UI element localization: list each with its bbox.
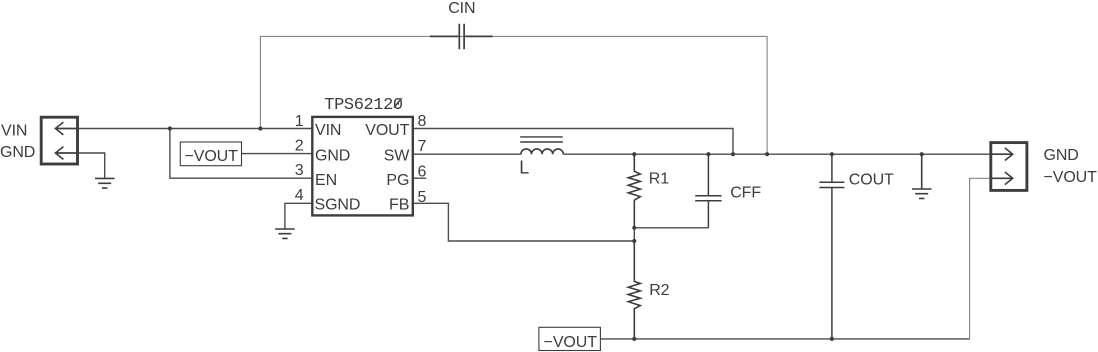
svg-text:EN: EN: [315, 172, 337, 189]
svg-text:PG: PG: [386, 172, 409, 189]
wire FB pin 5 to divider midpoint: [413, 203, 635, 241]
svg-text:R1: R1: [649, 170, 669, 187]
wire SGND pin 4 to ground: [285, 203, 312, 229]
svg-text:5: 5: [418, 189, 427, 206]
svg-text:L: L: [519, 157, 529, 177]
svg-text:GND: GND: [1044, 147, 1079, 164]
node junction VIN/EN: [168, 126, 172, 130]
svg-text:CFF: CFF: [730, 185, 761, 202]
svg-text:GND: GND: [315, 147, 350, 164]
capacitor CFF: [695, 154, 721, 228]
wire GND from connector to ground: [55, 153, 104, 178]
svg-text:SW: SW: [384, 147, 411, 164]
svg-text:FB: FB: [389, 197, 409, 214]
node junction R1/CFF bottom: [632, 226, 636, 230]
node junction FB/divider: [632, 239, 636, 243]
svg-text:VIN: VIN: [1, 122, 27, 139]
slashed zero of TPS62120: [394, 98, 402, 107]
node junction rail/ground: [920, 152, 924, 156]
ground symbol (input GND): [95, 178, 115, 188]
connector J1 VIN/GND input: [41, 117, 77, 164]
svg-text:GND: GND: [0, 144, 35, 161]
wire output rail (inductor to output connector): [563, 153, 1012, 155]
capacitor CIN: [430, 24, 493, 50]
wire pin 6 PG stub: [413, 177, 426, 179]
arrow pin GND (left connector, bottom): [55, 147, 77, 160]
node junction COUT/bottom rail: [830, 337, 834, 341]
svg-text:TPS62120: TPS62120: [324, 96, 403, 115]
svg-text:−VOUT: −VOUT: [1044, 169, 1098, 186]
arrow pin -VOUT (right connector, bottom): [991, 172, 1013, 185]
arrow pin GND (right connector, top): [991, 148, 1013, 161]
node junction rail/CIN: [765, 152, 769, 156]
svg-text:SGND: SGND: [315, 197, 361, 214]
wire VIN input rail (connector to pin 1): [55, 128, 312, 130]
svg-text:VIN: VIN: [315, 122, 341, 139]
net label -VOUT (bottom rail): [539, 327, 601, 351]
resistor R1: [628, 154, 640, 228]
inductor L: [520, 137, 563, 154]
wire SW pin 7 to inductor: [413, 153, 521, 155]
wire -VOUT label box to pin 2 GND: [242, 153, 313, 155]
node junction rail/COUT: [830, 152, 834, 156]
svg-text:−VOUT: −VOUT: [185, 148, 239, 165]
net label -VOUT (at GND pin): [180, 142, 241, 166]
svg-text:VOUT: VOUT: [365, 122, 409, 139]
node junction rail/VOUT: [731, 152, 735, 156]
svg-text:3: 3: [295, 162, 304, 179]
wire CFF bottom to divider: [634, 227, 708, 229]
svg-text:8: 8: [418, 113, 427, 130]
wire VOUT pin 8 to output rail: [413, 129, 733, 155]
svg-text:−VOUT: −VOUT: [544, 334, 598, 351]
svg-text:1: 1: [295, 113, 304, 130]
node junction VIN/CIN: [258, 126, 262, 130]
svg-text:7: 7: [418, 138, 427, 155]
wire EN tie to VIN: [170, 129, 312, 179]
ground symbol (SGND): [275, 229, 295, 238]
arrow pin VIN (left connector, top): [55, 122, 77, 135]
node junction R2/bottom rail: [632, 337, 636, 341]
wire divider midpoint segment: [633, 228, 635, 241]
node junction rail/R1: [632, 152, 636, 156]
svg-text:4: 4: [295, 187, 304, 204]
wire bottom -VOUT rail: [600, 338, 970, 340]
svg-text:2: 2: [295, 137, 304, 154]
resistor R2: [628, 241, 640, 339]
connector J2 GND/-VOUT output: [991, 143, 1027, 191]
ground symbol (output GND): [912, 154, 932, 198]
capacitor COUT: [819, 154, 844, 339]
svg-text:COUT: COUT: [849, 171, 894, 188]
IC U1 TPS62120 body: [312, 117, 413, 215]
svg-text:CIN: CIN: [448, 0, 475, 17]
svg-text:6: 6: [418, 164, 427, 181]
svg-text:R2: R2: [649, 282, 669, 299]
wire CIN loop: [260, 36, 767, 154]
node junction rail/CFF: [706, 152, 710, 156]
